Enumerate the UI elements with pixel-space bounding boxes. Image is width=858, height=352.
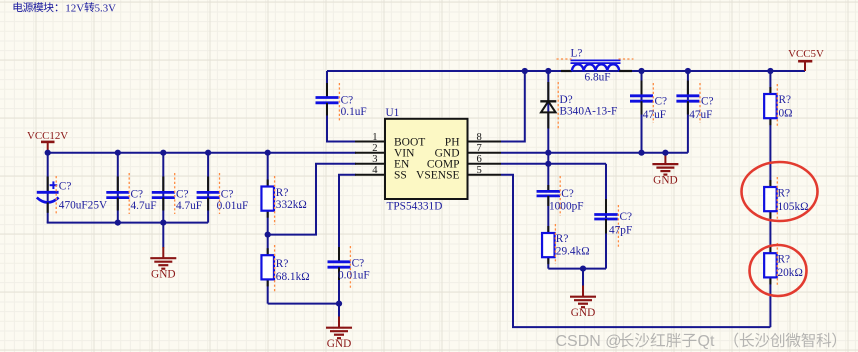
- svg-text:GND: GND: [653, 175, 677, 187]
- wire C5 bottom to gnd rail: [338, 267, 340, 304]
- junction C5 / GND2: [336, 301, 342, 307]
- junction R1/R2 EN node: [265, 232, 271, 238]
- junction VIN bus / R1: [265, 150, 271, 156]
- junction cap rail / GND1: [160, 220, 166, 226]
- svg-text:GND: GND: [571, 307, 595, 319]
- resistor R2 68.1k: [261, 245, 309, 293]
- wire C2 vertical: [117, 153, 119, 223]
- svg-text:332kΩ: 332kΩ: [276, 199, 307, 211]
- wire comp bottom rail: [548, 268, 606, 270]
- svg-text:47uF: 47uF: [689, 109, 712, 121]
- ground GND4 compensation: [570, 286, 596, 320]
- svg-text:C?: C?: [561, 188, 574, 200]
- watermark CSDN: [556, 333, 837, 350]
- U1 pin 3 EN: [355, 154, 410, 171]
- wire left cap bank bottom rail: [47, 222, 208, 224]
- title text 电源模块：12V转5.3V: [14, 2, 117, 14]
- U1 pin 7 GND: [435, 143, 501, 160]
- junction comp rail / GND4: [580, 266, 586, 272]
- svg-text:CSDN @: CSDN @: [556, 333, 622, 350]
- power port VCC12V: [27, 130, 68, 153]
- svg-text:470uF25V: 470uF25V: [59, 200, 108, 212]
- svg-text:8: 8: [477, 132, 482, 143]
- svg-text:5.3V: 5.3V: [95, 3, 116, 15]
- wire GND4 stub: [582, 269, 584, 287]
- ground GND1 left cap bank: [150, 247, 176, 281]
- capacitor C3 4.7uF: [152, 173, 202, 214]
- junction PH riser / top net: [522, 68, 528, 74]
- svg-text:0.01uF: 0.01uF: [338, 270, 370, 282]
- wire bottom rail R68.1k to GND2: [268, 303, 339, 305]
- svg-text:C?: C?: [620, 211, 633, 223]
- svg-text:0.01uF: 0.01uF: [217, 200, 249, 212]
- svg-text:L?: L?: [571, 48, 583, 60]
- junction diode branch / COMP: [545, 161, 551, 167]
- svg-text:C?: C?: [221, 188, 234, 200]
- svg-text:1000pF: 1000pF: [549, 200, 584, 212]
- resistor R6 20k: [764, 243, 803, 287]
- U1 pin 1 BOOT: [355, 132, 425, 149]
- junction VIN bus / C4: [205, 150, 211, 156]
- wire diode vertical through GND and COMP to C6: [547, 71, 549, 191]
- wire VIN bus from VCC12V to U1 pin2: [48, 152, 356, 154]
- junction VIN bus / C3: [160, 150, 166, 156]
- svg-text:1: 1: [372, 132, 377, 143]
- wire elec cap C1 vertical: [47, 153, 49, 223]
- U1 pin 8 PH: [445, 132, 501, 149]
- resistor R3 29.4k: [542, 224, 590, 264]
- svg-text:R?: R?: [276, 258, 289, 270]
- capacitor C4 0.01uF: [197, 173, 249, 214]
- highlight circle around R6: [750, 245, 807, 296]
- svg-text:6.8uF: 6.8uF: [585, 71, 611, 83]
- wire C3 vertical: [162, 153, 164, 223]
- IC U1 TPS54331D: [385, 107, 468, 212]
- wire BOOT cap branch: [327, 71, 356, 142]
- svg-text:C?: C?: [131, 188, 144, 200]
- svg-text:C?: C?: [701, 95, 714, 107]
- wire GND stub left cap bank: [162, 223, 164, 248]
- U1 pin 5 VSENSE: [416, 165, 501, 182]
- svg-text:3: 3: [372, 154, 377, 165]
- svg-text:BOOT: BOOT: [394, 136, 425, 148]
- wire R332k/R68.1k chain vertical: [267, 153, 269, 304]
- resistor R5 105k: [764, 177, 808, 221]
- capacitor C5 0.01uF on SS: [328, 246, 370, 288]
- svg-text:Qt: Qt: [698, 333, 715, 350]
- capacitor C2 4.7uF: [106, 173, 156, 214]
- power port VCC5V: [788, 48, 824, 71]
- junction diode anode / GND rail: [545, 150, 551, 156]
- svg-text:B340A-13-F: B340A-13-F: [560, 106, 618, 118]
- junction diode cathode / top net: [545, 68, 551, 74]
- svg-text:0Ω: 0Ω: [779, 107, 793, 119]
- junction R4 / top net: [767, 68, 773, 74]
- capacitor C7 47pF: [594, 199, 632, 248]
- svg-text:VCC5V: VCC5V: [788, 48, 824, 60]
- junction cap rail / C2: [115, 220, 121, 226]
- U1 pin 6 COMP: [427, 154, 501, 171]
- svg-text:47pF: 47pF: [609, 225, 632, 237]
- junction GND3 / GND rail: [662, 150, 668, 156]
- wire COMP net pin6: [501, 163, 606, 165]
- wire top net PH/BOOT/L/VCC5V: [327, 70, 805, 72]
- svg-text:GND: GND: [327, 338, 351, 350]
- ground GND2 under C5: [326, 317, 352, 351]
- capacitor C10 0.1uF bootstrap: [316, 83, 367, 121]
- svg-text:PH: PH: [445, 136, 460, 148]
- wire C7 47pF vertical: [605, 164, 607, 269]
- capacitor C1 470uF25V electrolytic: [37, 176, 108, 214]
- svg-text:C?: C?: [352, 258, 365, 270]
- capacitor C6 1000pF: [537, 176, 584, 216]
- svg-text:68.1kΩ: 68.1kΩ: [276, 271, 310, 283]
- svg-text:GND: GND: [151, 269, 175, 281]
- svg-text:12V: 12V: [65, 3, 84, 15]
- diode D1 B340A-13-F: [540, 82, 617, 130]
- svg-text:R?: R?: [556, 233, 569, 245]
- svg-text:VSENSE: VSENSE: [416, 170, 459, 182]
- junction VIN bus / C2: [115, 150, 121, 156]
- svg-text:105kΩ: 105kΩ: [778, 201, 809, 213]
- svg-text:R?: R?: [276, 187, 289, 199]
- svg-text:VCC12V: VCC12V: [27, 130, 68, 142]
- svg-text:C?: C?: [655, 95, 668, 107]
- svg-text:4.7uF: 4.7uF: [176, 200, 202, 212]
- wire C4 vertical: [207, 153, 209, 223]
- wire GND2 stub: [338, 304, 340, 317]
- resistor R1 332k: [261, 176, 306, 225]
- svg-text:C?: C?: [59, 181, 72, 193]
- capacitor C8 47uF: [630, 81, 667, 124]
- wire inductor net segment: [632, 70, 642, 72]
- inductor L1 6.8uF: [557, 48, 634, 84]
- wire VSENSE net pin5 long route: [501, 175, 770, 327]
- wire output cap C9 vertical: [687, 71, 689, 153]
- svg-text:7: 7: [477, 143, 482, 154]
- wire power GND rail pin7-diode-caps: [501, 152, 688, 154]
- capacitor C9 47uF: [676, 81, 713, 124]
- junction C9 / top net: [685, 68, 691, 74]
- svg-text:D?: D?: [560, 94, 573, 106]
- svg-text:20kΩ: 20kΩ: [778, 267, 803, 279]
- U1 pin 4 SS: [355, 165, 407, 182]
- svg-text:SS: SS: [394, 170, 407, 182]
- svg-text:C?: C?: [341, 94, 354, 106]
- wire EN net from divider to pin3: [268, 164, 356, 235]
- svg-text:0.1uF: 0.1uF: [341, 106, 367, 118]
- ground GND3 output caps: [652, 153, 678, 187]
- wire feedback chain vertical: [769, 71, 771, 327]
- junction C8 / top net: [638, 68, 644, 74]
- resistor R4 0 ohm: [764, 84, 792, 128]
- svg-text:R?: R?: [778, 187, 791, 199]
- svg-text:4.7uF: 4.7uF: [131, 200, 157, 212]
- svg-text:4: 4: [372, 165, 378, 176]
- wire output cap C8 vertical: [641, 71, 643, 153]
- wire PH riser: [501, 71, 525, 142]
- svg-text:C?: C?: [176, 188, 189, 200]
- wire C6/R29.4k branch: [547, 196, 549, 269]
- svg-text:U1: U1: [386, 107, 400, 119]
- svg-text:47uF: 47uF: [643, 109, 666, 121]
- svg-text:29.4kΩ: 29.4kΩ: [556, 246, 590, 258]
- junction VIN bus / C1: [45, 150, 51, 156]
- svg-text:5: 5: [477, 165, 482, 176]
- svg-text:TPS54331D: TPS54331D: [387, 201, 443, 213]
- U1 pin 2 VIN: [355, 143, 415, 160]
- svg-text:R?: R?: [778, 253, 791, 265]
- svg-text:R?: R?: [779, 94, 792, 106]
- wire SS net pin4 to C5: [339, 175, 356, 262]
- highlight circle around R5: [742, 162, 818, 221]
- junction C8 / GND rail: [638, 150, 644, 156]
- svg-text:2: 2: [372, 143, 377, 154]
- svg-text:6: 6: [477, 154, 482, 165]
